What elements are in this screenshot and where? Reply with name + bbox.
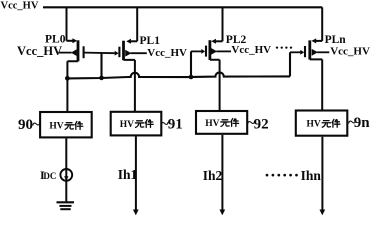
svg-text:9n: 9n [354, 115, 370, 131]
svg-text:HV: HV [49, 122, 63, 132]
svg-text:Ihn: Ihn [301, 168, 322, 183]
svg-text:92: 92 [254, 117, 269, 133]
svg-text:Vcc_HV: Vcc_HV [147, 47, 187, 59]
svg-text:91: 91 [168, 117, 183, 133]
svg-text:~: ~ [348, 114, 356, 131]
svg-text:HV: HV [205, 119, 219, 129]
svg-text:DC: DC [43, 171, 56, 181]
svg-text:Ih1: Ih1 [118, 167, 138, 182]
svg-text:~: ~ [247, 115, 255, 132]
svg-text:PL1: PL1 [140, 35, 161, 47]
svg-text:Vcc_HV: Vcc_HV [330, 45, 370, 57]
svg-text:90: 90 [18, 117, 33, 133]
svg-text:HV: HV [120, 120, 134, 130]
svg-text:HV: HV [307, 120, 321, 130]
svg-text:~: ~ [32, 116, 40, 133]
svg-text:Vcc_HV: Vcc_HV [17, 44, 62, 58]
svg-text:Ih2: Ih2 [203, 168, 223, 183]
svg-text:PL2: PL2 [226, 34, 247, 46]
svg-text:Vcc_HV: Vcc_HV [1, 0, 39, 11]
svg-text:~: ~ [161, 116, 169, 133]
svg-text:PL0: PL0 [45, 34, 66, 46]
svg-text:PLn: PLn [325, 34, 347, 46]
